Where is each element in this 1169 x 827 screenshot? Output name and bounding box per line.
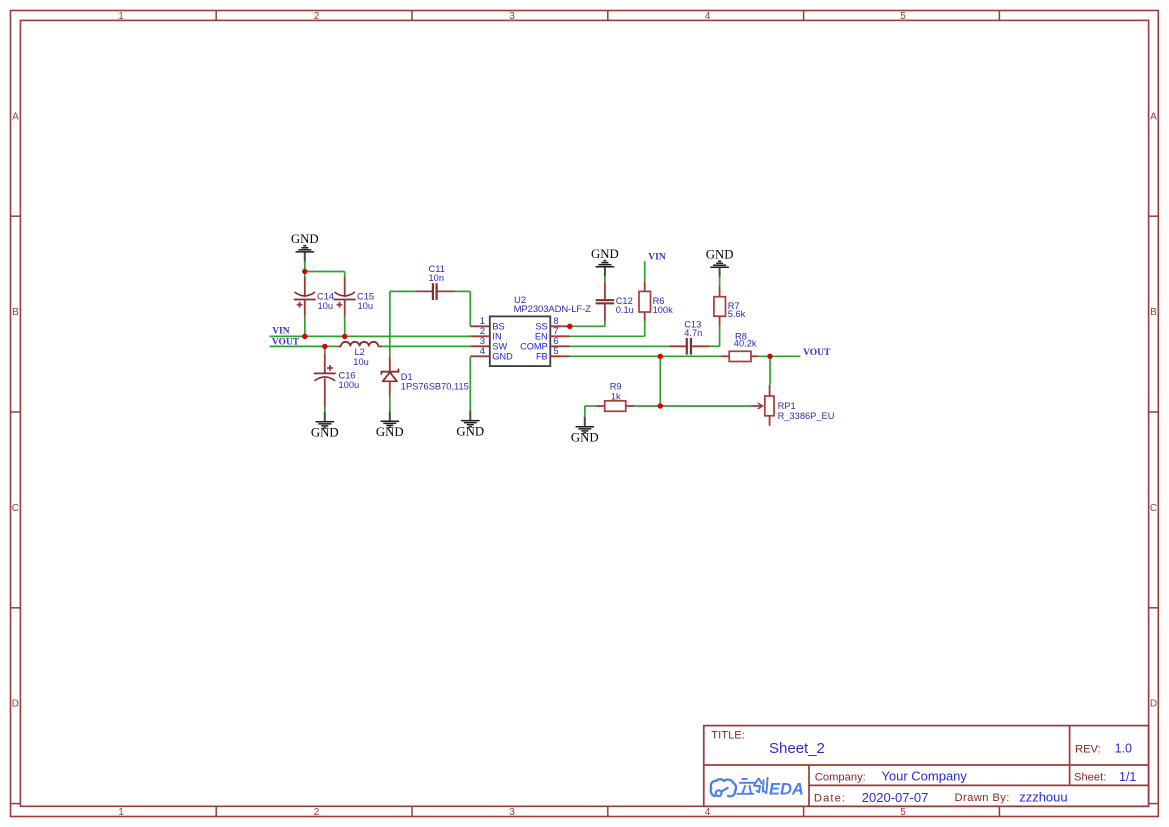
svg-text:B: B [1150,307,1157,318]
svg-text:EN: EN [535,332,548,342]
svg-text:3: 3 [509,807,515,818]
svg-text:VOUT: VOUT [803,348,831,358]
svg-text:FB: FB [536,352,548,362]
svg-text:Drawn By:: Drawn By: [955,792,1010,804]
svg-text:Company:: Company: [815,771,866,783]
svg-text:R9: R9 [610,382,622,392]
svg-text:5: 5 [900,11,906,22]
svg-text:1PS76SB70,115: 1PS76SB70,115 [401,381,469,391]
svg-text:MP2303ADN-LF-Z: MP2303ADN-LF-Z [514,304,592,315]
svg-text:Sheet:: Sheet: [1074,772,1106,784]
svg-text:C: C [12,503,19,514]
svg-text:GND: GND [456,425,484,439]
svg-text:A: A [12,112,19,123]
svg-text:100k: 100k [653,305,674,315]
svg-text:B: B [12,307,19,318]
svg-text:GND: GND [492,352,513,362]
svg-text:D: D [1150,698,1157,709]
svg-text:1.0: 1.0 [1115,742,1132,756]
svg-text:5: 5 [900,807,906,818]
svg-text:40.2k: 40.2k [734,339,757,349]
svg-text:10n: 10n [429,273,445,283]
svg-text:SW: SW [492,342,507,352]
svg-text:10u: 10u [358,301,374,311]
svg-text:VIN: VIN [272,327,290,337]
svg-text:3: 3 [509,11,515,22]
svg-text:BS: BS [492,322,504,332]
svg-text:10u: 10u [318,301,334,311]
svg-text:10u: 10u [353,357,369,367]
svg-text:1: 1 [118,807,124,818]
svg-text:GND: GND [571,431,599,445]
svg-text:100u: 100u [339,380,360,390]
svg-text:4.7n: 4.7n [684,328,702,338]
svg-text:L2: L2 [355,347,365,357]
svg-text:1k: 1k [611,392,621,402]
svg-text:4: 4 [705,11,711,22]
svg-text:VIN: VIN [648,252,666,262]
svg-text:4: 4 [705,807,711,818]
svg-text:2: 2 [314,807,320,818]
svg-text:REV:: REV: [1075,744,1101,756]
svg-text:Your Company: Your Company [881,769,967,784]
svg-text:D: D [12,698,19,709]
svg-text:5.6k: 5.6k [728,309,746,319]
svg-text:4: 4 [480,346,485,357]
svg-text:zzzhouu: zzzhouu [1019,790,1067,805]
svg-text:2: 2 [314,11,320,22]
svg-text:TITLE:: TITLE: [711,730,745,742]
svg-text:Sheet_2: Sheet_2 [769,740,825,757]
svg-text:2020-07-07: 2020-07-07 [862,790,929,805]
svg-text:VOUT: VOUT [272,338,300,348]
svg-text:A: A [1150,112,1157,123]
svg-text:GND: GND [291,232,319,246]
svg-text:SS: SS [535,322,547,332]
svg-text:IN: IN [492,332,501,342]
svg-text:R_3386P_EU: R_3386P_EU [778,411,835,421]
svg-text:0.1u: 0.1u [616,305,634,315]
svg-text:GND: GND [591,247,619,261]
svg-text:GND: GND [311,426,339,440]
svg-text:C: C [1150,503,1157,514]
svg-text:EDA: EDA [769,781,804,799]
svg-text:RP1: RP1 [778,401,796,411]
svg-text:GND: GND [706,248,734,262]
svg-text:Date:: Date: [814,792,846,804]
svg-text:1/1: 1/1 [1119,770,1136,784]
svg-text:1: 1 [118,11,124,22]
svg-text:COMP: COMP [520,342,548,352]
svg-text:GND: GND [376,425,404,439]
svg-text:5: 5 [553,346,558,357]
